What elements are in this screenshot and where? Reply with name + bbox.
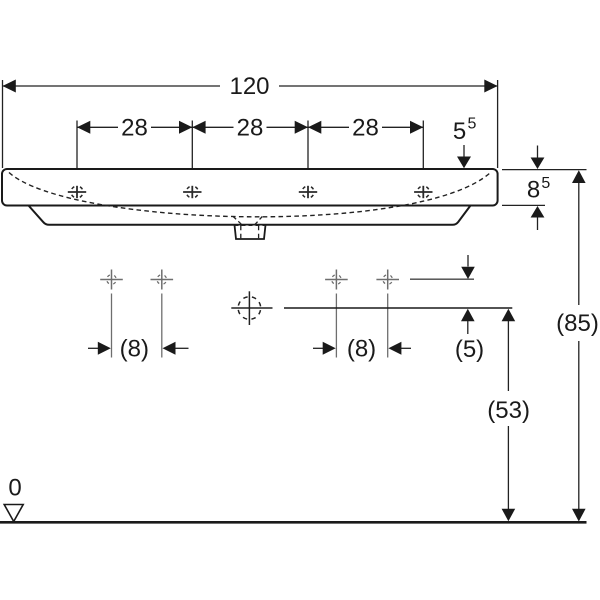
dimension (53) lower line and arrow down [502,426,516,521]
dimension (85) vertical line lower [578,341,580,510]
dimension (53) arrow up [502,309,516,391]
svg-text:8: 8 [527,177,540,204]
extension line below mark right A [335,294,337,358]
dimension 28 label 2 [237,114,264,141]
dimension 28 arrows at tick2 [179,121,206,134]
drain trap inner dashed wall left [240,226,242,239]
dimension 120 extension line left [2,80,4,168]
dimension 28 label 1 [121,114,148,141]
drain trap inner dashed wall right [258,226,260,239]
dimension (8) left arrows [88,342,189,355]
dimension (8) right label [347,336,376,363]
washbasin rim outline [2,169,498,206]
svg-text:28: 28 [237,114,264,141]
dimension 5^5 label [453,116,477,146]
svg-text:(8): (8) [347,336,376,363]
washbasin apron outline [29,206,471,225]
extension line below mark left A [111,294,113,358]
floor level zero label [8,475,21,502]
floor line [0,521,587,524]
tap hole mark row2 right B [376,270,399,290]
dimension 8^5 arrow up [531,206,545,230]
dimension 120 arrow right [484,80,497,93]
drain height reference line [284,307,512,309]
dimension (85) vertical line upper [578,182,580,305]
drain trap box [235,225,266,239]
dimension (8) right arrows [313,342,411,355]
dimension 28 line segments [77,126,423,128]
tap hole mark 3 on rim [299,186,317,198]
washbasin inner bowl dashed contour [9,173,491,217]
floor level datum triangle [4,505,23,522]
tap hole mark 1 on rim [68,186,86,198]
dimension 28 tick 1 [76,121,78,169]
dimension (5) arrow down at reference line [461,255,475,279]
dimension (85) arrow up [572,170,586,183]
tap hole mark row2 left B [151,270,174,290]
drain hole dashed circle [231,291,272,325]
svg-text:5: 5 [541,175,550,192]
dimension 28 arrows at tick3 [295,121,322,134]
tap hole mark 2 on rim [183,186,201,198]
dimension (85) arrow down [572,509,586,522]
dimension 8^5 arrow down [531,146,545,170]
dimension (5) label [455,336,484,363]
tap hole mark 4 on rim [414,186,432,198]
drain funnel dashed right [254,217,262,226]
extension line below mark left B [161,294,163,358]
dimension 120 arrow left [3,80,16,93]
tap hole mark row2 left A [100,270,123,290]
dimension 28 tick 2 [191,121,193,169]
dimension 8^5 extension line top [502,169,587,171]
dimension 28 arrow at tick4 pointing right [410,121,423,134]
tap hole reference line right [410,278,474,280]
svg-text:28: 28 [121,114,148,141]
svg-text:0: 0 [8,475,21,502]
dimension 28 tick 4 [422,121,424,169]
dimension 5^5 arrow down [457,145,471,168]
dimension 120 extension line right [497,80,499,168]
svg-text:(85): (85) [556,310,599,337]
drain trap box dashed top edge [235,224,266,226]
tap hole mark row2 right A [325,270,348,290]
dimension 28 tick 3 [307,121,309,169]
dimension 120 label [229,73,269,100]
dimension (53) label [487,397,530,424]
svg-text:5: 5 [468,116,477,133]
dimension 120 line [3,85,498,87]
svg-text:5: 5 [453,118,466,145]
drain funnel dashed left [233,217,242,226]
svg-text:120: 120 [229,73,269,100]
svg-text:28: 28 [352,114,379,141]
svg-text:(5): (5) [455,336,484,363]
dimension (5) arrow up [461,309,475,334]
dimension (8) left label [120,336,149,363]
dimension (85) label [556,310,599,337]
dimension 8^5 extension line bottom [502,204,545,206]
svg-text:(53): (53) [487,397,530,424]
extension line below mark right B [387,294,389,358]
svg-text:(8): (8) [120,336,149,363]
dimension 8^5 label [527,175,551,204]
dimension 28 label 3 [352,114,379,141]
dimension 28 arrow at tick1 pointing left [77,121,90,134]
